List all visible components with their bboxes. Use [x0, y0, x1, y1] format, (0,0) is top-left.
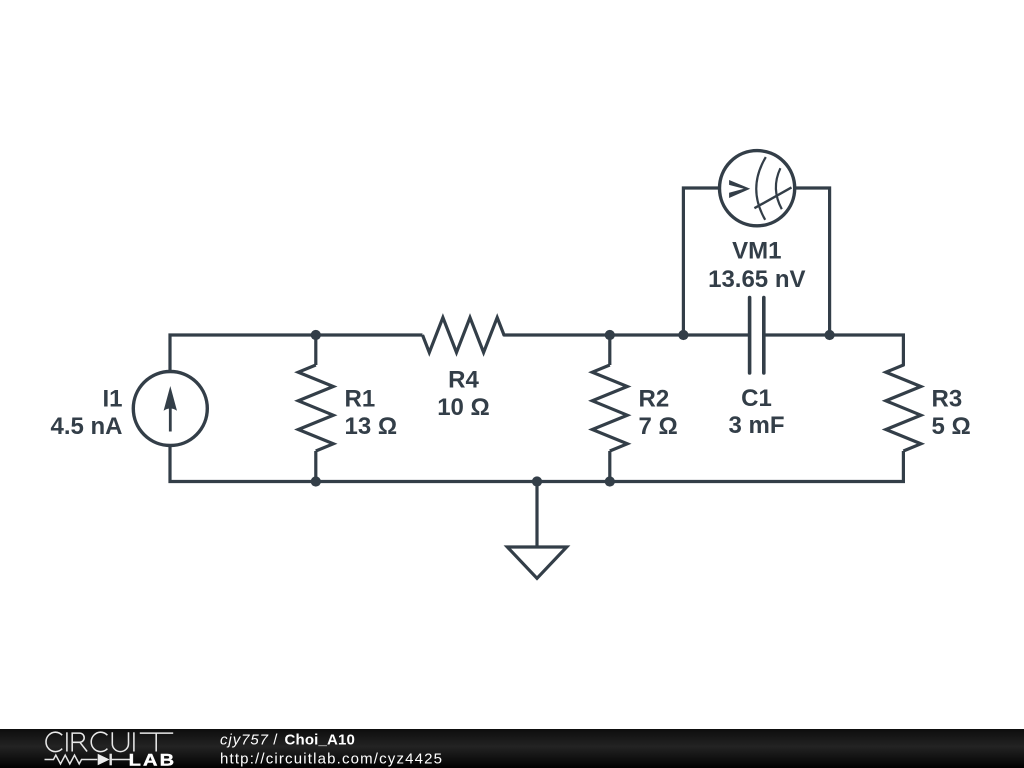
svg-text:3 mF: 3 mF — [728, 412, 784, 439]
svg-text:R1: R1 — [345, 386, 376, 413]
node VM right — [825, 330, 835, 340]
svg-text:http://circuitlab.com/cyz4425: http://circuitlab.com/cyz4425 — [220, 751, 442, 768]
logo letter R — [72, 733, 87, 751]
capacitor C1 plate left — [748, 298, 752, 373]
wire I1 bottom — [170, 445, 903, 481]
wire top rail mid — [504, 333, 748, 336]
voltmeter VM1 wire right — [795, 188, 830, 335]
wire top rail left — [170, 335, 423, 372]
footer credit line — [220, 731, 442, 767]
node R1 top — [311, 330, 321, 340]
voltmeter VM1 body — [720, 151, 795, 226]
wire R1 stub bottom — [314, 451, 317, 482]
svg-text:13.65 nV: 13.65 nV — [708, 266, 805, 293]
voltmeter VM1 arc large — [756, 157, 766, 220]
svg-text:cjy757: cjy757 — [220, 731, 269, 748]
logo letter C — [46, 732, 62, 751]
svg-text:10 Ω: 10 Ω — [437, 394, 490, 421]
svg-text:R4: R4 — [448, 366, 479, 393]
logo CIRCUIT — [46, 732, 173, 751]
logo resistor-diode glyph — [45, 754, 131, 766]
resistor R2 — [592, 365, 627, 451]
labels — [50, 237, 970, 440]
node R2 top — [605, 330, 615, 340]
ground symbol — [507, 547, 566, 578]
resistor R3 — [886, 365, 921, 451]
node R2 bottom — [605, 476, 615, 486]
logo letter C2 — [91, 732, 107, 751]
voltmeter VM1 needle — [754, 187, 791, 208]
node R1 bottom — [311, 476, 321, 486]
logo letter I2 — [133, 732, 135, 751]
node ground — [532, 476, 542, 486]
capacitor C1 plate right — [762, 298, 766, 373]
wire R2 stub top — [608, 335, 611, 365]
wire R2 stub bottom — [608, 451, 611, 482]
svg-text:5 Ω: 5 Ω — [932, 413, 971, 440]
svg-text:R2: R2 — [639, 386, 670, 413]
svg-text:I1: I1 — [102, 386, 122, 413]
svg-text:4.5 nA: 4.5 nA — [50, 413, 122, 440]
node VM left — [678, 330, 688, 340]
svg-text:VM1: VM1 — [732, 237, 781, 264]
voltmeter VM1 arc small — [776, 168, 782, 209]
voltmeter VM1 wire left — [683, 188, 719, 335]
svg-text:R3: R3 — [932, 386, 963, 413]
wire ground stub — [535, 482, 538, 548]
node dots — [311, 330, 835, 487]
logo letter I — [66, 732, 68, 751]
svg-text:C1: C1 — [741, 385, 772, 412]
voltmeter VM1 chevron — [729, 180, 750, 198]
svg-text:Choi_A10: Choi_A10 — [285, 731, 355, 748]
wire R1 stub top — [314, 335, 317, 365]
current source I1 — [133, 372, 207, 446]
wire top rail right — [765, 335, 903, 365]
resistor R1 — [298, 365, 333, 451]
logo letter T — [140, 733, 173, 751]
resistor R4 — [423, 318, 505, 353]
current source I1 arrow — [164, 386, 177, 432]
svg-text:13 Ω: 13 Ω — [345, 413, 398, 440]
svg-text:7 Ω: 7 Ω — [639, 413, 678, 440]
svg-text:LAB: LAB — [129, 750, 177, 768]
logo letter U — [112, 732, 128, 751]
